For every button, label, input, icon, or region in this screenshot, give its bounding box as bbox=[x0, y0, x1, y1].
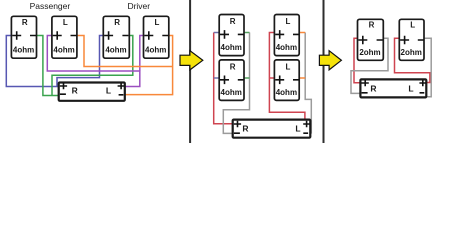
stub orange middle L- bottom bbox=[299, 77, 305, 79]
wire red right R+ to amp bbox=[354, 38, 360, 83]
svg-text:L: L bbox=[285, 62, 290, 71]
svg-text:L: L bbox=[295, 123, 300, 133]
svg-text:4ohm: 4ohm bbox=[13, 46, 34, 55]
wire orange L- net: box2 minus run bbox=[77, 36, 173, 67]
svg-text:2ohm: 2ohm bbox=[401, 48, 422, 57]
wire purple L+ net: box2 plus to amp L plus bbox=[47, 36, 140, 87]
svg-text:4ohm: 4ohm bbox=[145, 46, 166, 55]
wire orange L- net: box4 minus to amp L minus bbox=[125, 36, 173, 95]
svg-text:L: L bbox=[154, 18, 159, 27]
svg-text:L: L bbox=[106, 85, 111, 95]
svg-text:L: L bbox=[285, 17, 290, 26]
svg-text:R: R bbox=[114, 18, 120, 27]
speaker box Passenger R 4ohm bbox=[11, 16, 36, 58]
wire blue R+ net: box3 plus branch bbox=[57, 36, 103, 87]
svg-text:R: R bbox=[72, 85, 78, 95]
svg-text:Passenger: Passenger bbox=[30, 1, 71, 11]
stub blue middle R+ bottom bbox=[214, 77, 223, 79]
speaker box right R 2ohm bbox=[358, 19, 384, 60]
svg-text:R: R bbox=[369, 21, 375, 30]
amplifier middle panel bbox=[233, 120, 311, 138]
amplifier left panel bbox=[59, 83, 125, 101]
speaker box middle R bottom 4ohm bbox=[219, 60, 244, 101]
stub green middle R- top bbox=[242, 32, 250, 34]
svg-text:4ohm: 4ohm bbox=[53, 46, 74, 55]
wire green R- net: box1 minus to amp R minus bbox=[37, 36, 59, 96]
svg-text:4ohm: 4ohm bbox=[276, 43, 297, 52]
svg-text:R: R bbox=[22, 18, 28, 27]
speaker box middle L bottom 4ohm bbox=[274, 60, 299, 101]
wire green R- net: box3 minus branch bbox=[52, 36, 133, 96]
svg-text:L: L bbox=[408, 83, 413, 93]
stub blue middle R+ top bbox=[214, 32, 223, 34]
svg-text:L: L bbox=[410, 21, 415, 30]
wire red right L+ to amp bbox=[395, 38, 430, 82]
svg-text:R: R bbox=[370, 83, 376, 93]
svg-text:2ohm: 2ohm bbox=[359, 48, 380, 57]
svg-text:R: R bbox=[242, 123, 248, 133]
divider line 1 bbox=[189, 0, 191, 143]
speaker box Driver R 4ohm bbox=[103, 16, 129, 58]
svg-text:4ohm: 4ohm bbox=[276, 88, 297, 97]
svg-text:R: R bbox=[230, 62, 236, 71]
wire red middle L+ to amp bbox=[269, 33, 305, 120]
svg-text:4ohm: 4ohm bbox=[105, 46, 126, 55]
svg-text:R: R bbox=[230, 17, 236, 26]
amplifier right panel bbox=[360, 79, 426, 97]
speaker box Passenger L 4ohm bbox=[52, 16, 77, 58]
wire gray right R- to amp bbox=[351, 38, 388, 93]
stub green middle R- bottom bbox=[242, 77, 250, 79]
svg-text:4ohm: 4ohm bbox=[221, 43, 242, 52]
wire gray middle L- to amp bbox=[305, 33, 311, 133]
svg-text:L: L bbox=[63, 18, 68, 27]
wire gray right L- to amp bbox=[424, 38, 431, 97]
wire gray middle R- to amp bbox=[223, 33, 249, 134]
speaker box middle R top 4ohm bbox=[219, 15, 244, 56]
speaker box middle L top 4ohm bbox=[274, 15, 299, 56]
wire red middle R+ to amp bbox=[214, 33, 233, 124]
wire purple L+ net: box4 plus branch bbox=[140, 36, 144, 72]
stub red middle L+ bottom bbox=[269, 77, 276, 79]
wire blue R+ net: box1 plus to amp R plus bbox=[6, 36, 58, 87]
yellow arrow 1 bbox=[180, 51, 203, 70]
svg-text:Driver: Driver bbox=[127, 1, 150, 11]
yellow arrow 2 bbox=[319, 51, 341, 70]
svg-text:4ohm: 4ohm bbox=[221, 88, 242, 97]
speaker box right L 2ohm bbox=[399, 19, 424, 60]
speaker box Driver L 4ohm bbox=[144, 16, 169, 58]
divider line 2 bbox=[323, 0, 325, 143]
stub orange middle L- top bbox=[299, 32, 305, 34]
